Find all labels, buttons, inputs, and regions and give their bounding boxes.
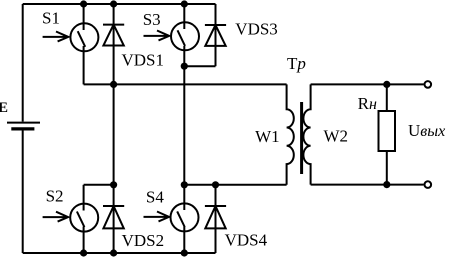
junction dot top rail S3 (181, 0, 188, 7)
switch S1 lever (78, 31, 86, 47)
svg-text:VDS2: VDS2 (122, 231, 165, 250)
diode VDS4 triangle (205, 206, 225, 228)
wire W2 bottom lead (311, 184, 424, 186)
wire top rail (23, 3, 216, 5)
diode VDS3 triangle (205, 25, 225, 46)
switch S2 lever (77, 212, 85, 228)
wire S4 bottom stub (183, 227, 185, 254)
wire VDS1 column (top rail to node A) (113, 4, 115, 84)
transformer winding W2 (303, 84, 310, 184)
diode VDS4 cathode bar (205, 205, 226, 207)
diode VDS2 triangle (103, 206, 123, 228)
resistor Rn body (379, 111, 396, 151)
wire resistor bottom lead (386, 151, 388, 185)
wire VDS3 column (215, 4, 217, 66)
wire S3 bottom / node B column (183, 46, 185, 210)
arrow S1 control (43, 32, 69, 42)
junction dot W2 bottom / resistor (383, 181, 390, 188)
wire S1 bottom stub (83, 46, 85, 84)
junction dot bottom rail VDS2 (110, 249, 117, 256)
transformer winding W1 (287, 84, 294, 184)
arrow S2 control (43, 212, 69, 222)
switch S3 lever (178, 30, 186, 46)
wire bottom rail (23, 252, 216, 254)
junction dot node B S4 (181, 181, 188, 188)
svg-text:S4: S4 (146, 187, 164, 206)
svg-text:VDS3: VDS3 (235, 19, 278, 38)
wire S2 top stub (83, 185, 85, 211)
svg-text:Tp: Tp (287, 54, 306, 73)
junction dot node A / VDS1 (110, 81, 117, 88)
switch S3 (171, 22, 199, 50)
wire S3 top stub (183, 4, 185, 29)
junction dot W2 top / resistor (383, 81, 390, 88)
switch S4 (171, 203, 199, 231)
svg-text:E: E (0, 100, 8, 116)
junction dot top rail S1 (80, 0, 87, 7)
junction dot bottom rail S4 (181, 249, 188, 256)
svg-text:Uвых: Uвых (408, 121, 445, 140)
junction dot S2 top / VDS2 (110, 181, 117, 188)
junction dot node B VDS4 (212, 181, 219, 188)
wire left column lower (E negative lead) (22, 130, 24, 253)
wire S1 top stub (83, 4, 85, 30)
wire W2 top lead (311, 83, 424, 85)
wire node A (bridge midpoint left to W1 top) (84, 83, 287, 85)
svg-text:Rн: Rн (358, 94, 377, 113)
junction dot S3 bottom (181, 63, 188, 70)
diode VDS2 cathode bar (103, 205, 124, 207)
wire resistor top lead (386, 84, 388, 111)
svg-text:VDS4: VDS4 (225, 230, 268, 249)
diode VDS1 cathode bar (103, 24, 124, 26)
junction dot top rail VDS1 (110, 0, 117, 7)
diode VDS1 triangle (103, 25, 123, 46)
diode VDS3 cathode bar (205, 24, 226, 26)
svg-text:VDS1: VDS1 (122, 50, 165, 69)
wire node B (bridge midpoint right to W1 bottom) (184, 184, 286, 186)
wire left column upper (E positive lead) (22, 4, 24, 122)
svg-text:W2: W2 (324, 127, 349, 146)
terminal output top (425, 81, 432, 88)
arrow S3 control (144, 31, 170, 41)
terminal output bottom (425, 181, 432, 188)
wire S2 bottom stub (83, 227, 85, 254)
svg-text:S2: S2 (46, 186, 64, 205)
arrow S4 control (144, 212, 170, 222)
svg-text:W1: W1 (255, 127, 280, 146)
switch S4 lever (177, 211, 185, 227)
svg-text:S1: S1 (42, 9, 60, 28)
transformer core (300, 102, 303, 174)
wire VDS2 column (node A down to bottom rail) (113, 84, 115, 253)
wire S2 top link (84, 184, 114, 186)
switch S1 (70, 23, 98, 51)
wire VDS4 column (node B to bottom rail) (215, 185, 217, 253)
junction dot bottom rail S2 (80, 249, 87, 256)
switch S2 (70, 204, 98, 232)
svg-text:S3: S3 (143, 10, 161, 29)
battery E long plate (7, 122, 40, 124)
wire S3-VDS3 bottom link (184, 65, 215, 67)
battery E short plate (11, 127, 34, 130)
